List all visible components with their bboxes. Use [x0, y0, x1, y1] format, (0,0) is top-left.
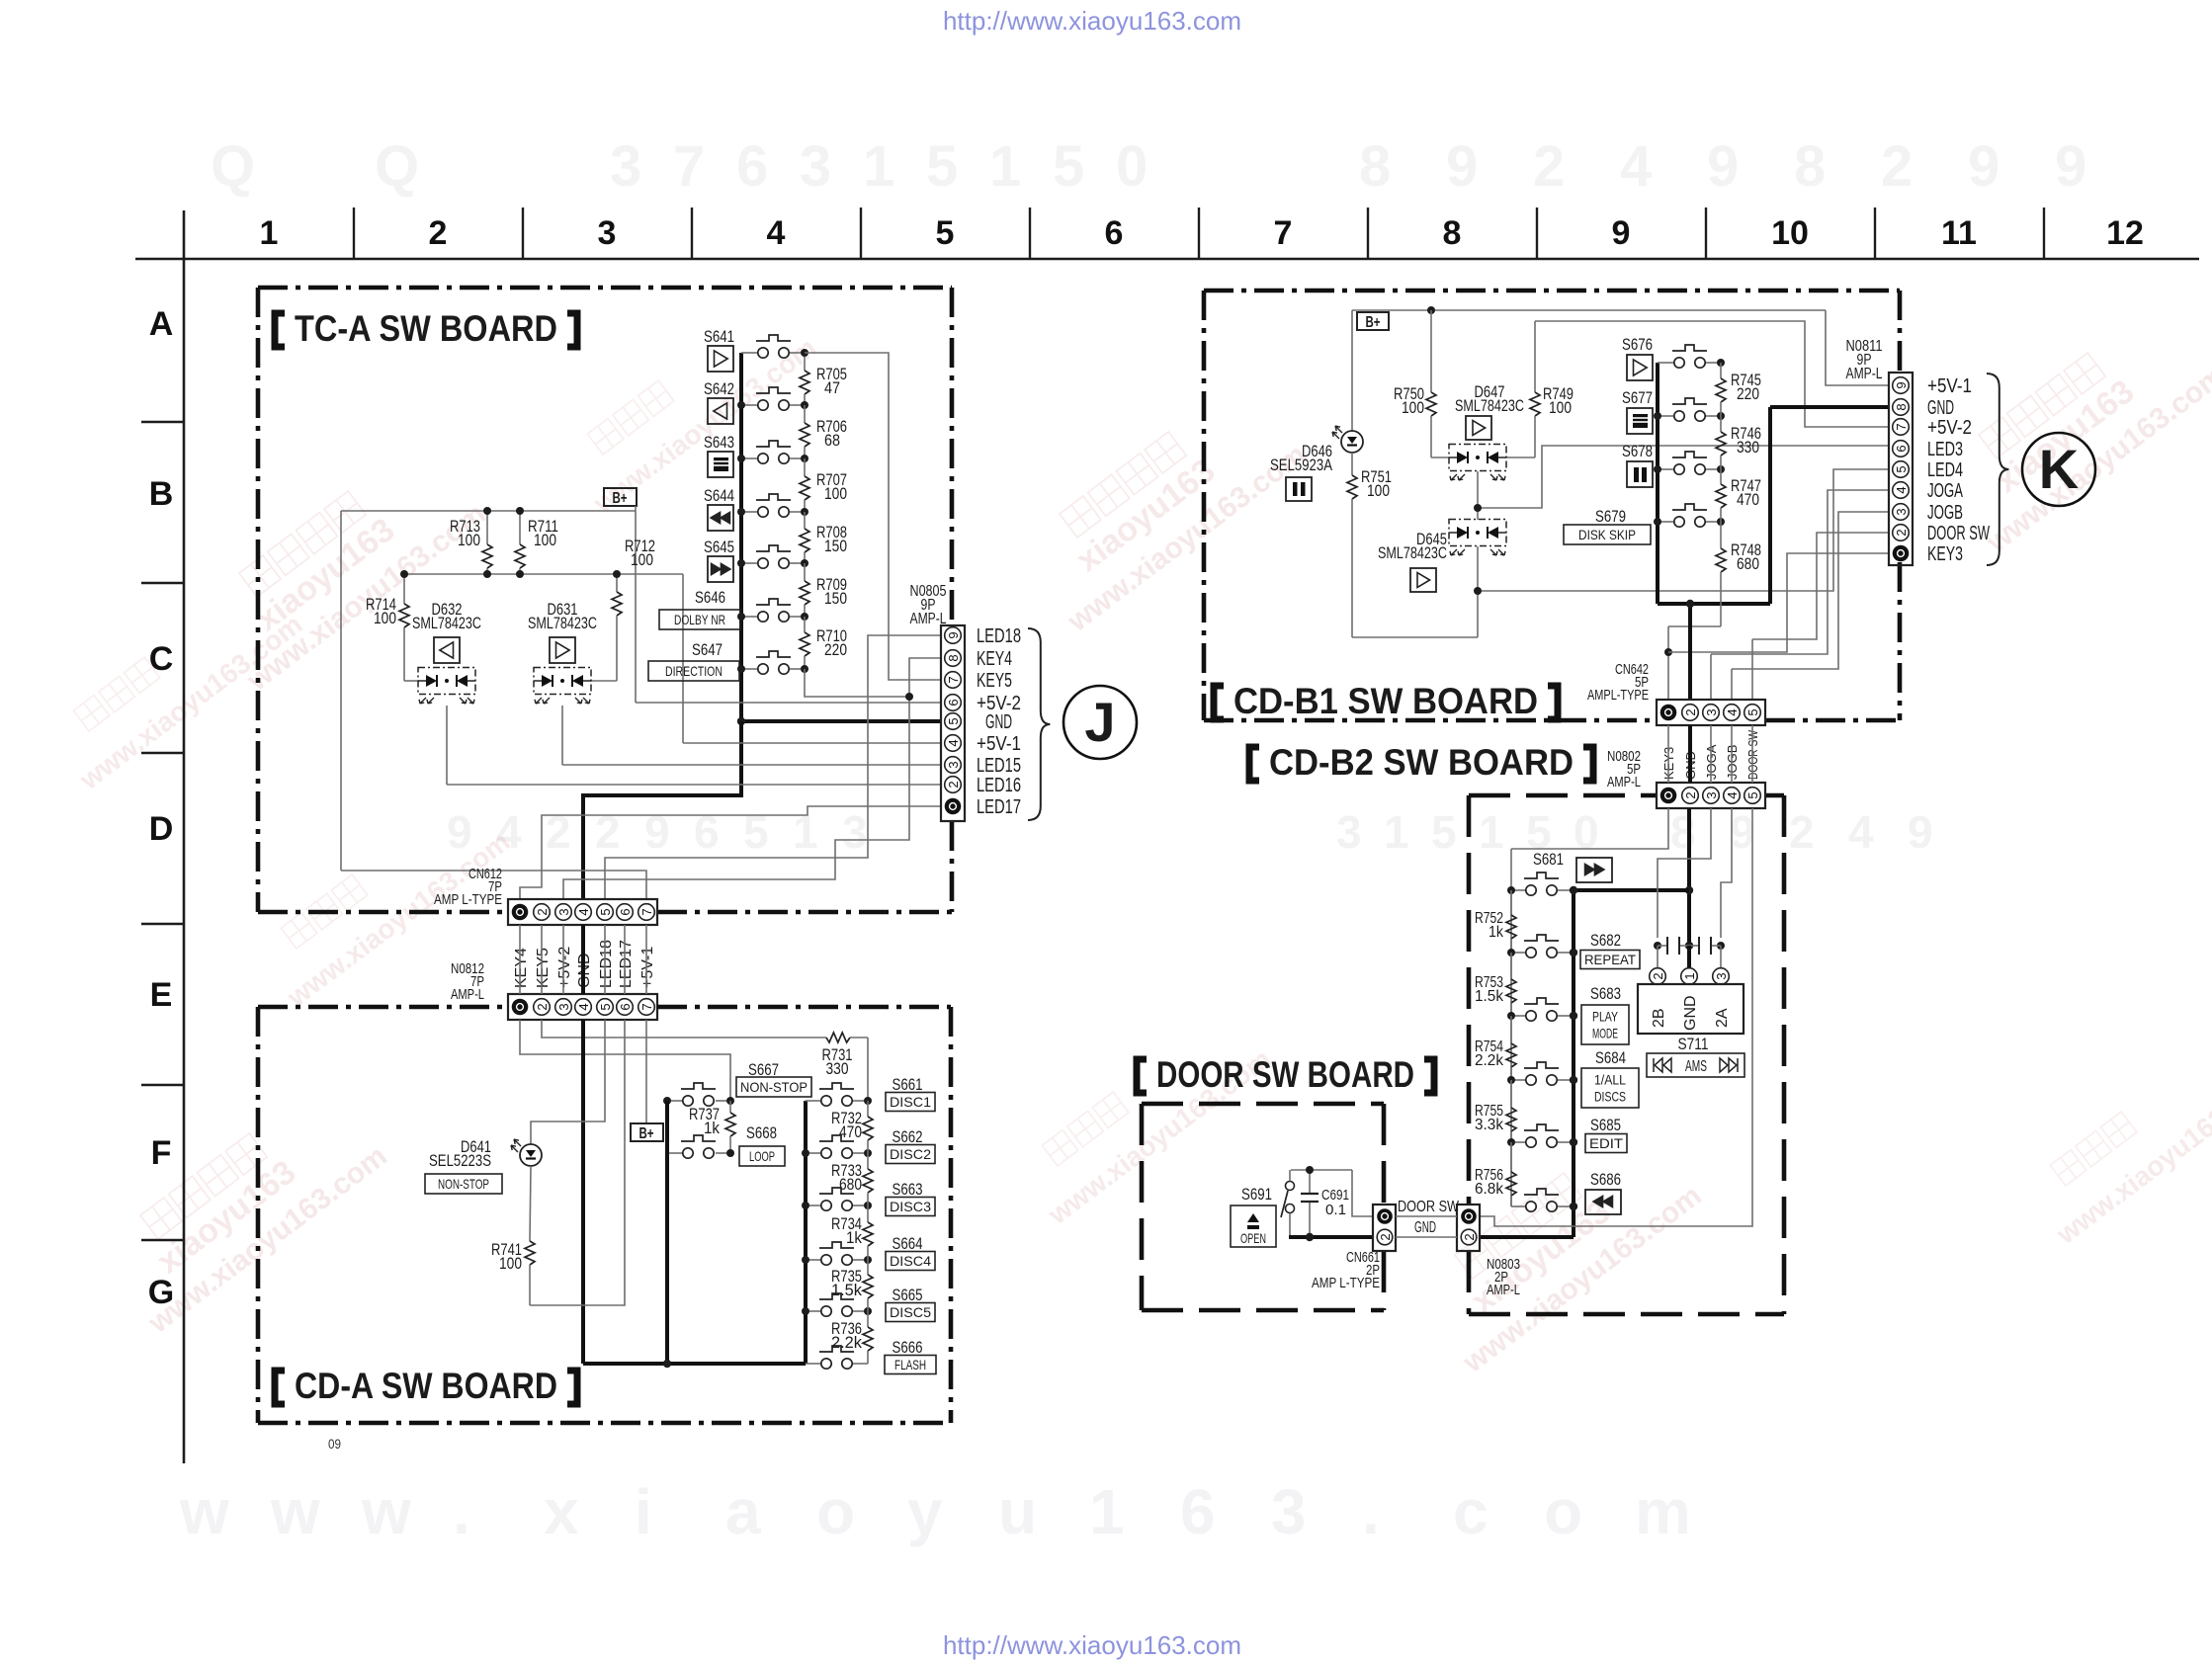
wire DOOR SW between connectors [1396, 1215, 1457, 1217]
svg-text:150: 150 [824, 537, 847, 555]
svg-text:3.3k: 3.3k [1475, 1117, 1504, 1133]
wire GND (CD-B2) [1687, 808, 1691, 946]
svg-text:3: 3 [1336, 806, 1362, 858]
svg-text:TC-A SW BOARD: TC-A SW BOARD [295, 308, 557, 349]
wire +5V-2 pin6 to rail [636, 702, 941, 704]
svg-text:5: 5 [936, 214, 955, 252]
svg-text:AMP-L: AMP-L [451, 986, 484, 1003]
svg-text:S646: S646 [695, 588, 725, 607]
svg-text:2: 2 [1683, 708, 1698, 715]
resistor R752 [1510, 890, 1512, 915]
svg-text:SML78423C: SML78423C [528, 614, 597, 632]
svg-text:6: 6 [1894, 445, 1909, 452]
svg-text:8: 8 [1894, 403, 1909, 410]
wire KEY4 to S667 [520, 1020, 730, 1101]
resistor R748 [1720, 522, 1722, 548]
svg-text:47: 47 [824, 378, 840, 397]
capacitor C691 [1309, 1170, 1311, 1194]
resistor R750 [1430, 310, 1432, 392]
svg-text:2: 2 [1462, 1233, 1477, 1240]
svg-text:3: 3 [1714, 972, 1729, 979]
svg-text:G: G [148, 1274, 174, 1311]
CD-B1 SW BOARD title [1214, 686, 1224, 719]
resistor R713 [486, 511, 488, 544]
wire KEY4 branch to CN612 pin3 [563, 697, 909, 899]
svg-text:7: 7 [639, 908, 654, 915]
svg-text:.: . [453, 1476, 470, 1547]
svg-text:SEL5923A: SEL5923A [1270, 456, 1333, 474]
svg-text:o: o [816, 1476, 855, 1547]
CD-B2 SW BOARD border [1469, 793, 1657, 798]
svg-text:FLASH: FLASH [894, 1357, 926, 1372]
wire DOOR SW (CD-B1) [1752, 533, 1889, 639]
svg-text:AMPL-TYPE: AMPL-TYPE [1587, 687, 1649, 704]
svg-text:KEY4: KEY4 [977, 648, 1012, 670]
svg-text:KEY5: KEY5 [535, 948, 552, 988]
svg-text:B+: B+ [613, 490, 628, 507]
svg-text:1: 1 [989, 134, 1021, 199]
svg-text:CD-B2 SW BOARD: CD-B2 SW BOARD [1269, 742, 1574, 783]
svg-text:100: 100 [499, 1254, 522, 1273]
svg-text:1: 1 [1384, 806, 1409, 858]
wire GND down to CN612 pin4 [583, 721, 741, 899]
svg-text:1k: 1k [846, 1228, 862, 1247]
svg-text:8: 8 [1794, 134, 1826, 199]
svg-text:AMP L-TYPE: AMP L-TYPE [1312, 1275, 1380, 1291]
svg-text:EDIT: EDIT [1589, 1135, 1623, 1151]
svg-text:a: a [725, 1476, 761, 1547]
svg-text:2B: 2B [1651, 1008, 1667, 1028]
svg-text:S663: S663 [893, 1180, 923, 1199]
svg-text:6: 6 [618, 1003, 633, 1010]
svg-text:3: 3 [1271, 1476, 1307, 1547]
svg-text:S711: S711 [1678, 1035, 1709, 1053]
jog connector box 2B GND 2A [1638, 984, 1744, 1034]
svg-text:1: 1 [863, 134, 894, 199]
svg-text:7: 7 [1894, 423, 1909, 430]
svg-text:S666: S666 [893, 1338, 923, 1357]
svg-text:GND: GND [1682, 995, 1699, 1031]
svg-text:MODE: MODE [1592, 1025, 1618, 1040]
svg-text:2: 2 [1683, 791, 1698, 798]
svg-text:AMP L-TYPE: AMP L-TYPE [434, 891, 502, 908]
svg-text:6.8k: 6.8k [1475, 1181, 1504, 1198]
svg-text:2: 2 [946, 781, 961, 788]
svg-text:4: 4 [1620, 134, 1652, 199]
resistor R749 [1534, 321, 1536, 392]
svg-text:3: 3 [800, 134, 831, 199]
connector CN661 [1373, 1205, 1396, 1251]
svg-text:100: 100 [631, 550, 653, 569]
svg-text:8: 8 [1670, 806, 1696, 858]
wire +5V rail [404, 573, 683, 575]
svg-text:SML78423C: SML78423C [1378, 543, 1447, 562]
svg-text:JOGB: JOGB [1927, 502, 1963, 524]
svg-text:K: K [2039, 438, 2079, 500]
svg-text:A: A [149, 305, 174, 343]
CD-B1 SW BOARD border [1204, 289, 1900, 293]
wire LED17 to R741 [530, 1020, 625, 1305]
wire GND switch bus (CD-B1) [1656, 363, 1659, 604]
wire +5V-2 (CD-B1) [1535, 321, 1889, 427]
svg-text:S686: S686 [1590, 1170, 1621, 1189]
svg-text:DOOR SW: DOOR SW [1398, 1199, 1460, 1215]
svg-text:330: 330 [1737, 438, 1759, 457]
wire JOGA (CD-B2) [1658, 808, 1711, 938]
svg-text:5: 5 [1894, 465, 1909, 472]
svg-text:9: 9 [1446, 134, 1478, 199]
svg-text:S681: S681 [1533, 850, 1564, 869]
svg-text:DOOR SW: DOOR SW [1927, 523, 1990, 544]
svg-text:6: 6 [618, 908, 633, 915]
svg-text:PLAY: PLAY [1592, 1008, 1618, 1024]
svg-text:AMP-L: AMP-L [1846, 366, 1883, 382]
resistor R755 [1510, 1080, 1512, 1108]
brace K [1987, 374, 2008, 565]
svg-text:KEY3: KEY3 [1927, 543, 1963, 565]
svg-text:+5V-2: +5V-2 [1927, 417, 1972, 439]
wire KEY3 (CD-B1) [1668, 625, 1721, 627]
svg-text:DISC5: DISC5 [890, 1304, 931, 1320]
svg-text:LED17: LED17 [977, 796, 1021, 818]
svg-text:1/ALL: 1/ALL [1594, 1071, 1626, 1087]
svg-text:220: 220 [1737, 384, 1759, 403]
svg-text:F: F [151, 1134, 172, 1172]
resistor R705 [804, 353, 806, 371]
CD-B2 SW BOARD title [1249, 747, 1259, 781]
svg-text:7: 7 [1274, 214, 1293, 252]
svg-text:c: c [1453, 1476, 1489, 1547]
wire JOGA (CD-B1) [1711, 490, 1889, 654]
svg-text:1k: 1k [1489, 924, 1504, 941]
svg-text:6: 6 [1180, 1476, 1216, 1547]
svg-text:GND: GND [985, 711, 1012, 733]
svg-text:9: 9 [1894, 381, 1909, 388]
node K [2022, 433, 2095, 506]
svg-text:9: 9 [1908, 806, 1933, 858]
svg-text:68: 68 [824, 431, 840, 450]
svg-text:y: y [907, 1476, 943, 1547]
svg-text:220: 220 [824, 640, 847, 659]
svg-text:8: 8 [1359, 134, 1391, 199]
svg-text:LED16: LED16 [977, 775, 1021, 796]
N0811 pin labels [1927, 375, 1990, 565]
svg-text:2: 2 [546, 806, 571, 858]
svg-text:9: 9 [2055, 134, 2086, 199]
svg-text:2A: 2A [1714, 1008, 1731, 1028]
svg-text:DISC4: DISC4 [890, 1253, 931, 1269]
svg-text:8: 8 [946, 654, 961, 661]
svg-text:5: 5 [926, 134, 958, 199]
svg-text:S642: S642 [704, 379, 734, 398]
svg-text:100: 100 [1367, 481, 1390, 500]
svg-text:+5V-1: +5V-1 [639, 947, 656, 988]
svg-text:+5V-1: +5V-1 [1927, 375, 1972, 397]
svg-text:5: 5 [598, 1003, 613, 1010]
N0805 pin labels [977, 625, 1021, 818]
svg-text:10: 10 [1771, 214, 1809, 252]
svg-text:2: 2 [1789, 806, 1815, 858]
jog switch contacts [1654, 942, 1661, 950]
svg-text:DOLBY NR: DOLBY NR [674, 612, 725, 627]
svg-text:GND: GND [1927, 397, 1954, 419]
svg-text:w: w [270, 1476, 320, 1547]
svg-text:3: 3 [1704, 708, 1719, 715]
svg-text:w: w [179, 1476, 229, 1547]
svg-text:KEY4: KEY4 [513, 948, 530, 988]
wire GND to CN642 [1688, 604, 1692, 700]
svg-text:+5V-1: +5V-1 [977, 733, 1021, 755]
svg-text:D: D [149, 810, 174, 848]
svg-text:1.5k: 1.5k [1475, 988, 1504, 1005]
svg-text:4: 4 [576, 1003, 591, 1010]
resistor R710 [804, 617, 806, 632]
resistor R747 [1720, 469, 1722, 484]
wire S691 C691 bottom thick [1289, 1235, 1373, 1239]
svg-text:2: 2 [1651, 972, 1665, 979]
svg-text:4: 4 [1725, 791, 1740, 798]
svg-text:100: 100 [1402, 398, 1424, 417]
svg-text:S667: S667 [748, 1060, 779, 1079]
svg-text:LED18: LED18 [598, 940, 615, 988]
svg-text:S647: S647 [692, 640, 723, 659]
resistor R734 [867, 1205, 869, 1222]
svg-text:DISC3: DISC3 [890, 1199, 931, 1214]
svg-text:Q: Q [375, 134, 419, 199]
svg-text:S661: S661 [893, 1075, 923, 1094]
svg-text:NON-STOP: NON-STOP [740, 1079, 808, 1095]
wire LED15 D631 to pin3 [561, 706, 563, 765]
svg-text:S662: S662 [893, 1127, 923, 1146]
svg-text:680: 680 [1737, 554, 1759, 573]
wire LED3 to D647 [1478, 446, 1889, 508]
svg-text:J: J [1084, 691, 1115, 753]
svg-text:2: 2 [535, 1003, 550, 1010]
svg-text:LED4: LED4 [1927, 459, 1963, 481]
watermark bottom large [179, 1476, 1691, 1547]
svg-text:7: 7 [673, 134, 705, 199]
svg-text:.: . [1362, 1476, 1380, 1547]
wire LED to D641 [531, 1020, 605, 1144]
svg-text:330: 330 [826, 1059, 849, 1078]
svg-text:5: 5 [598, 908, 613, 915]
wires CN642 to N0802 [1667, 725, 1669, 783]
svg-text:o: o [1544, 1476, 1582, 1547]
svg-text:S665: S665 [893, 1286, 923, 1304]
resistor R736 [867, 1311, 869, 1327]
resistor R735 [867, 1260, 869, 1275]
svg-text:S677: S677 [1622, 388, 1653, 407]
svg-text:E: E [150, 976, 173, 1014]
svg-text:DISCS: DISCS [1594, 1088, 1626, 1104]
svg-text:S664: S664 [893, 1234, 923, 1253]
TC-A SW BOARD border [258, 286, 952, 291]
svg-text:2: 2 [595, 806, 621, 858]
svg-text:6: 6 [946, 699, 961, 706]
svg-text:LED17: LED17 [618, 940, 635, 988]
svg-text:S685: S685 [1590, 1116, 1621, 1134]
svg-text:AMP-L: AMP-L [1607, 774, 1641, 790]
node B+ (CD-B1) [1357, 312, 1389, 330]
svg-text:AMP-L: AMP-L [1487, 1282, 1520, 1298]
svg-text:m: m [1635, 1476, 1691, 1547]
svg-text:3: 3 [1704, 791, 1719, 798]
wire GND thick (CD-A) [581, 1020, 585, 1364]
wire B+ rail (CD-B1) [1352, 309, 1826, 311]
svg-text:100: 100 [824, 484, 847, 503]
svg-text:1: 1 [1479, 806, 1504, 858]
wire KEY5 to R731 [542, 1020, 826, 1038]
resistor R756 [1510, 1142, 1512, 1172]
svg-text:5: 5 [1431, 806, 1457, 858]
svg-text:x: x [544, 1476, 579, 1547]
svg-text:DISC2: DISC2 [890, 1146, 931, 1162]
svg-text:S683: S683 [1590, 984, 1621, 1003]
svg-text:CD-B1 SW BOARD: CD-B1 SW BOARD [1234, 681, 1538, 721]
wire GND between connectors [1396, 1236, 1457, 1238]
svg-text:9: 9 [1968, 134, 1999, 199]
wire GND switch bus (TC-A) [739, 353, 743, 721]
svg-text:S668: S668 [746, 1123, 777, 1142]
svg-text:100: 100 [534, 531, 556, 549]
svg-text:JOGA: JOGA [1927, 480, 1963, 502]
svg-text:4: 4 [767, 214, 786, 252]
svg-text:9: 9 [946, 631, 961, 638]
svg-text:7: 7 [946, 676, 961, 683]
svg-text:2.2k: 2.2k [1475, 1052, 1504, 1069]
wire S667 S668 bus [665, 1101, 669, 1364]
svg-text:9: 9 [1730, 806, 1755, 858]
svg-text:S678: S678 [1622, 442, 1653, 460]
svg-text:3: 3 [556, 908, 571, 915]
grid column numbers [260, 214, 2144, 252]
TC-A SW BOARD title [275, 313, 285, 347]
svg-text:0.1: 0.1 [1325, 1202, 1346, 1218]
svg-text:4: 4 [1894, 486, 1909, 493]
DOOR SW BOARD border [1142, 1102, 1384, 1107]
grid row letters [148, 305, 174, 1311]
svg-text:DISC1: DISC1 [890, 1094, 931, 1110]
svg-text:2.2k: 2.2k [831, 1333, 862, 1352]
svg-text:i: i [635, 1476, 652, 1547]
svg-text:9: 9 [1612, 214, 1631, 252]
svg-text:5: 5 [946, 717, 961, 724]
node B+ (CD-A) [645, 1020, 647, 1123]
resistor R745 [1720, 363, 1722, 378]
svg-text:4: 4 [576, 908, 591, 915]
svg-text:2: 2 [1881, 134, 1913, 199]
wire LED18 pin9 to CN612 pin5 [605, 635, 941, 899]
svg-text:100: 100 [458, 531, 480, 549]
resistor R753 [1510, 953, 1512, 979]
svg-text:09: 09 [328, 1436, 341, 1452]
wire LED17 pin1 to CN612 pin1 [520, 806, 941, 899]
LED D645 [1449, 520, 1506, 546]
grid top rule [135, 258, 2199, 261]
svg-text:0: 0 [1116, 134, 1148, 199]
svg-text:http://www.xiaoyu163.com: http://www.xiaoyu163.com [943, 1630, 1241, 1660]
svg-text:S676: S676 [1622, 335, 1653, 354]
svg-text:1: 1 [1089, 1476, 1125, 1547]
svg-text:0: 0 [1574, 806, 1599, 858]
wire GND to N0805 pin5 [741, 719, 941, 723]
grid row ticks [141, 422, 184, 1240]
svg-text:2: 2 [1894, 529, 1909, 536]
svg-text:CD-A SW BOARD: CD-A SW BOARD [295, 1366, 557, 1406]
svg-text:LED15: LED15 [977, 755, 1021, 777]
svg-text:1: 1 [1682, 972, 1697, 979]
svg-text:470: 470 [1737, 490, 1759, 509]
svg-text:100: 100 [1549, 398, 1572, 417]
svg-text:C: C [149, 640, 174, 678]
svg-text:S644: S644 [704, 486, 734, 505]
wire JOGB (CD-B2) [1721, 808, 1732, 938]
node J [1063, 686, 1137, 759]
svg-text:3: 3 [1894, 508, 1909, 515]
svg-text:3: 3 [610, 134, 641, 199]
wire KEY4 ladder to pin8 [805, 658, 941, 697]
svg-text:9: 9 [1707, 134, 1739, 199]
svg-text:SML78423C: SML78423C [412, 614, 481, 632]
svg-text:470: 470 [839, 1122, 862, 1141]
wire +5V-1 rail to pin4 [683, 742, 941, 744]
DOOR SW BOARD title [1137, 1059, 1147, 1093]
svg-text:1: 1 [793, 806, 818, 858]
svg-text:2: 2 [1378, 1233, 1393, 1240]
resistor R712 [616, 574, 618, 592]
wire B+ rail [341, 510, 636, 512]
svg-text:+5V-2: +5V-2 [556, 947, 573, 988]
svg-text:LED18: LED18 [977, 625, 1021, 647]
svg-text:S645: S645 [704, 538, 734, 556]
watermark faint digits middle [447, 806, 1933, 858]
resistor R711 [519, 511, 521, 544]
svg-text:OPEN: OPEN [1240, 1230, 1266, 1246]
svg-text:11: 11 [1941, 214, 1977, 252]
resistor R732 [867, 1101, 869, 1117]
svg-text:1k: 1k [704, 1119, 720, 1137]
svg-text:3: 3 [598, 214, 617, 252]
connector N0803 [1457, 1205, 1480, 1251]
svg-text:SML78423C: SML78423C [1455, 396, 1524, 415]
svg-text:6: 6 [736, 134, 768, 199]
svg-text:5: 5 [1745, 708, 1760, 715]
wire JOGB (CD-B1) [1732, 512, 1889, 669]
svg-text:9: 9 [644, 806, 670, 858]
svg-text:B+: B+ [639, 1125, 654, 1142]
svg-text:1.5k: 1.5k [831, 1281, 862, 1299]
brace J [1028, 628, 1050, 820]
svg-text:2: 2 [535, 908, 550, 915]
CD-A SW BOARD title [275, 1371, 285, 1404]
watermark pink diagonals [73, 657, 160, 731]
wire DOOR SW (CD-B2) [1480, 808, 1752, 1226]
svg-text:DOOR SW BOARD: DOOR SW BOARD [1156, 1054, 1414, 1095]
resistor R754 [1510, 1016, 1512, 1043]
svg-text:3: 3 [556, 1003, 571, 1010]
svg-text:B: B [149, 475, 174, 513]
svg-text:LOOP: LOOP [749, 1148, 775, 1164]
svg-text:S641: S641 [704, 327, 734, 346]
svg-text:DIRECTION: DIRECTION [665, 663, 723, 679]
svg-text:7: 7 [639, 1003, 654, 1010]
svg-text:2: 2 [1533, 134, 1565, 199]
jog connector pins 2 1 3 [1650, 968, 1666, 985]
svg-text:8: 8 [1443, 214, 1462, 252]
wires CN612 to N0812 [519, 925, 521, 994]
svg-text:S682: S682 [1590, 931, 1621, 950]
svg-text:NON-STOP: NON-STOP [438, 1176, 489, 1192]
